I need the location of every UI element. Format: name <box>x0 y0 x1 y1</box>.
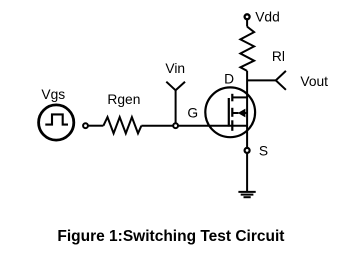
svg-text:Figure 1:Switching Test Circui: Figure 1:Switching Test Circuit <box>57 228 284 245</box>
resistor Rl <box>240 27 254 71</box>
svg-text:Vout: Vout <box>300 74 328 89</box>
probe Vin <box>166 82 185 126</box>
pulse generator Vgs <box>39 105 74 140</box>
terminal Vdd <box>245 14 250 19</box>
svg-text:Rl: Rl <box>272 49 285 64</box>
svg-text:G: G <box>187 105 198 120</box>
terminal S open circle <box>245 148 250 153</box>
svg-text:Rgen: Rgen <box>107 92 140 107</box>
wire source to ground <box>246 153 248 192</box>
terminal node at Vgs output <box>83 123 88 128</box>
resistor Rgen <box>103 117 141 133</box>
wire terminal to Rgen <box>88 125 104 127</box>
node G open circle <box>173 123 178 128</box>
svg-text:D: D <box>224 71 234 86</box>
ground <box>238 192 255 197</box>
wire junction to Vout probe <box>247 79 276 81</box>
svg-text:Vgs: Vgs <box>41 87 65 102</box>
wire Rl to drain junction and through MOSFET to source terminal <box>246 71 248 148</box>
svg-text:Vin: Vin <box>165 61 185 76</box>
svg-text:S: S <box>259 144 268 159</box>
wire Vdd to Rl <box>246 19 248 26</box>
gate wire Rgen to MOSFET <box>141 125 247 127</box>
MOSFET Q1 <box>205 87 255 137</box>
probe Vout <box>276 71 286 90</box>
svg-text:Vdd: Vdd <box>255 10 280 25</box>
